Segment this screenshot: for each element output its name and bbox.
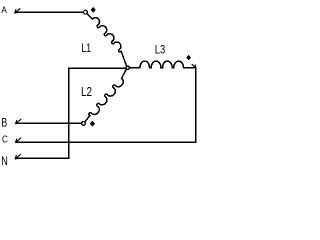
arrow at L3 wire corner bbox=[192, 64, 196, 67]
svg-text:L2: L2 bbox=[81, 85, 92, 99]
wire A (phase A lead-in) bbox=[15, 11, 83, 13]
svg-text:N: N bbox=[1, 154, 8, 167]
wire C (phase C lead-in) bbox=[16, 141, 196, 143]
svg-text:L3: L3 bbox=[155, 43, 166, 57]
arrow at wire end C bbox=[16, 138, 21, 142]
svg-text:B: B bbox=[1, 118, 7, 130]
wire right vertical segment (L3 to phase C) bbox=[195, 68, 197, 142]
svg-text:A: A bbox=[1, 5, 7, 16]
svg-text:L1: L1 bbox=[81, 41, 91, 55]
wire B (phase B lead-in) bbox=[16, 122, 81, 124]
inductor L2 bbox=[85, 69, 126, 122]
polarity dot marker at L1 terminal (filled diamond) bbox=[91, 7, 96, 13]
arrow at wire end A bbox=[15, 9, 20, 13]
wire neutral horizontal segment bbox=[69, 67, 126, 69]
polarity dot marker at L3 right end (filled diamond) bbox=[186, 55, 191, 60]
node star-point (neutral junction, open circle) bbox=[126, 66, 129, 69]
terminal B (open circle) bbox=[82, 122, 86, 126]
wire neutral vertical segment bbox=[68, 68, 70, 158]
terminal A (open circle) bbox=[84, 10, 88, 14]
arrow at wire end B bbox=[16, 119, 21, 123]
svg-text:C: C bbox=[2, 134, 8, 146]
arrow at wire end N bbox=[15, 155, 20, 159]
polarity dot marker at L2 terminal (filled diamond) bbox=[90, 121, 95, 127]
inductor L1 bbox=[87, 14, 127, 67]
wire N (neutral lead-in) bbox=[16, 157, 69, 159]
inductor L3 bbox=[130, 61, 194, 67]
